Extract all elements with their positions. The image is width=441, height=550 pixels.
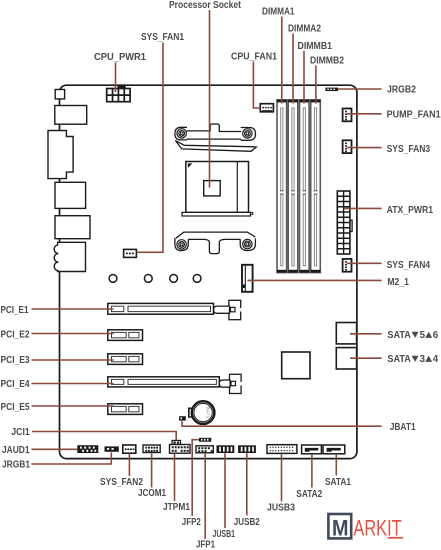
leader DIMMB1 bbox=[303, 51, 305, 104]
leader PCI_E5 bbox=[32, 405, 114, 407]
battery BAT1 bbox=[189, 401, 215, 424]
mounting hole 4 bbox=[193, 275, 201, 283]
svg-text:JBAT1: JBAT1 bbox=[390, 422, 416, 433]
svg-text:DIMMB2: DIMMB2 bbox=[310, 56, 344, 67]
svg-text:M2_1: M2_1 bbox=[387, 277, 409, 288]
svg-text:SATA2: SATA2 bbox=[296, 489, 322, 500]
svg-text:JUSB2: JUSB2 bbox=[234, 517, 260, 528]
svg-text:PUMP_FAN1: PUMP_FAN1 bbox=[387, 110, 441, 121]
MARKIT logo bbox=[328, 514, 403, 541]
SATA1 connector bbox=[323, 445, 345, 454]
leader JUSB1 bbox=[224, 453, 226, 528]
leader JUSB2 bbox=[246, 453, 248, 515]
leader SATA1 bbox=[335, 454, 337, 476]
leader JRGB1 bbox=[32, 453, 112, 465]
bottom bracket screw right bbox=[243, 239, 252, 248]
JFP2 connector bbox=[199, 438, 211, 442]
leader DIMMA1 bbox=[281, 17, 283, 104]
SATA 3/4 box bbox=[336, 348, 356, 369]
svg-text:JFP1: JFP1 bbox=[196, 540, 215, 550]
JTPM1 connector bbox=[170, 445, 191, 454]
top bracket screw left bbox=[177, 129, 186, 138]
leader M2_1 bbox=[248, 279, 382, 281]
leader DIMMA2 bbox=[292, 34, 294, 104]
svg-text:DIMMA1: DIMMA1 bbox=[262, 7, 295, 18]
JCI1 connector bbox=[172, 440, 181, 444]
svg-text:JCOM1: JCOM1 bbox=[138, 488, 166, 499]
svg-text:SATA1: SATA1 bbox=[325, 477, 351, 488]
JUSB2 connector bbox=[238, 445, 256, 453]
JBAT1 jumper bbox=[179, 416, 186, 420]
DIMM slot B1 bbox=[300, 100, 310, 273]
svg-text:JRGB1: JRGB1 bbox=[2, 460, 30, 471]
leader SATA2 bbox=[311, 454, 313, 488]
PCI_E5 slot bbox=[108, 404, 143, 415]
leader JTPM1 bbox=[174, 454, 176, 501]
PCI_E2 slot bbox=[108, 330, 143, 341]
JUSB1 connector bbox=[217, 445, 235, 453]
leader DIMMB2 bbox=[315, 66, 317, 104]
SYS_FAN1 connector bbox=[124, 249, 137, 257]
chipset bbox=[282, 352, 310, 379]
io audio jacks 6 bbox=[54, 242, 85, 271]
label SATA 3/4 bbox=[387, 354, 438, 365]
svg-text:SYS_FAN4: SYS_FAN4 bbox=[387, 260, 431, 271]
svg-text:5: 5 bbox=[420, 330, 426, 341]
svg-text:4: 4 bbox=[433, 354, 439, 365]
CPU socket top bracket bbox=[175, 124, 256, 151]
svg-text:ARKIT: ARKIT bbox=[353, 516, 401, 541]
socket bottom tray bbox=[182, 212, 253, 216]
svg-text:PCI_E5: PCI_E5 bbox=[1, 402, 30, 413]
leader ATX_PWR1 bbox=[344, 207, 382, 209]
leader PCI_E1 bbox=[32, 308, 114, 310]
svg-text:JRGB2: JRGB2 bbox=[387, 85, 416, 96]
svg-text:PCI_E1: PCI_E1 bbox=[1, 305, 29, 316]
svg-text:SYS_FAN1: SYS_FAN1 bbox=[141, 32, 184, 43]
svg-text:Processor Socket: Processor Socket bbox=[169, 0, 242, 11]
svg-text:JCI1: JCI1 bbox=[11, 427, 30, 438]
JAUD1 connector bbox=[77, 445, 98, 453]
leader JCOM1 bbox=[151, 454, 153, 488]
leader CPU_FAN1 bbox=[253, 62, 260, 109]
svg-text:PCI_E2: PCI_E2 bbox=[1, 330, 30, 341]
leader JFP1 bbox=[204, 453, 206, 539]
svg-text:PCI_E4: PCI_E4 bbox=[1, 379, 30, 390]
PCI_E4 latch bbox=[219, 374, 242, 393]
JFP1 connector bbox=[196, 446, 213, 453]
leader PCI_E4 bbox=[32, 383, 114, 385]
leader JRGB2 bbox=[338, 88, 382, 90]
mounting hole 1 bbox=[109, 275, 117, 283]
svg-text:DIMMB1: DIMMB1 bbox=[298, 41, 333, 52]
svg-text:ATX_PWR1: ATX_PWR1 bbox=[387, 205, 434, 216]
svg-text:SYS_FAN3: SYS_FAN3 bbox=[387, 144, 431, 155]
svg-text:3: 3 bbox=[420, 354, 426, 365]
leader SYS_FAN3 bbox=[347, 147, 382, 149]
top bracket screw right bbox=[243, 129, 252, 138]
leader SATA56 bbox=[350, 333, 382, 335]
bottom bracket screw left bbox=[177, 240, 186, 249]
leader SYS_FAN1 bbox=[137, 43, 164, 253]
SATA 5/6 box bbox=[336, 323, 356, 344]
PCI_E3 slot bbox=[108, 354, 143, 365]
leader SATA34 bbox=[350, 357, 382, 359]
leader JBAT1 bbox=[182, 421, 382, 426]
leader SYS_FAN4 bbox=[347, 262, 382, 264]
label SATA 5/6 bbox=[387, 330, 438, 341]
SYS_FAN2 connector bbox=[123, 445, 136, 453]
SYS_FAN4 connector bbox=[343, 259, 352, 272]
io port rect 2 bbox=[55, 106, 87, 125]
svg-text:PCI_E3: PCI_E3 bbox=[1, 355, 30, 366]
DIMM slot A1 bbox=[277, 100, 287, 273]
CPU_PWR1 connector grid bbox=[107, 86, 130, 102]
svg-text:DIMMA2: DIMMA2 bbox=[288, 24, 321, 35]
io port square 1 bbox=[55, 90, 64, 99]
JCOM1 connector bbox=[143, 445, 160, 453]
JRGB2 connector bbox=[326, 88, 338, 92]
PCI_E1 latch bbox=[214, 300, 242, 319]
CPU_FAN1 connector bbox=[260, 104, 273, 112]
PCI_E1 slot bbox=[108, 303, 214, 314]
M2_1 standoff bbox=[242, 265, 253, 292]
leader PCI_E2 bbox=[32, 333, 114, 335]
socket center square bbox=[204, 181, 221, 196]
svg-text:6: 6 bbox=[433, 330, 439, 341]
DIMM slot A2 bbox=[288, 100, 298, 273]
svg-text:CPU_FAN1: CPU_FAN1 bbox=[231, 52, 277, 63]
PUMP_FAN1 connector bbox=[343, 109, 352, 122]
leader JAUD1 bbox=[32, 448, 78, 450]
svg-text:SATA: SATA bbox=[387, 330, 411, 341]
leader SYS_FAN2 bbox=[128, 454, 130, 477]
JRGB1 connector bbox=[105, 446, 119, 451]
CPU socket square bbox=[186, 162, 249, 213]
leader CPU_PWR1 bbox=[115, 63, 117, 93]
io port rect 5 bbox=[55, 216, 90, 239]
leader Processor Socket bbox=[209, 10, 211, 188]
DIMM slot B2 bbox=[311, 100, 321, 273]
board outline bbox=[60, 85, 357, 458]
svg-text:JUSB3: JUSB3 bbox=[267, 503, 295, 514]
io port notched 3 bbox=[48, 131, 73, 179]
leader JFP2 bbox=[192, 440, 199, 516]
ATX_PWR1 connector bbox=[337, 191, 352, 254]
svg-text:JUSB1: JUSB1 bbox=[213, 529, 236, 540]
leader JCI1 bbox=[32, 432, 176, 441]
mounting hole 2 bbox=[144, 275, 152, 283]
PCI_E4 slot bbox=[108, 377, 220, 387]
svg-text:JAUD1: JAUD1 bbox=[2, 445, 30, 456]
leader PUMP_FAN1 bbox=[347, 113, 382, 115]
SATA2 connector bbox=[302, 445, 322, 454]
svg-text:BAT1: BAT1 bbox=[206, 407, 211, 419]
leader PCI_E3 bbox=[32, 359, 114, 361]
SYS_FAN3 connector bbox=[343, 140, 352, 153]
io port rect 4 bbox=[55, 182, 86, 208]
svg-text:JTPM1: JTPM1 bbox=[163, 502, 190, 513]
svg-text:SYS_FAN2: SYS_FAN2 bbox=[100, 477, 143, 488]
JUSB3 connector bbox=[267, 445, 297, 454]
svg-text:JFP2: JFP2 bbox=[182, 517, 201, 528]
CPU socket bottom bracket bbox=[175, 232, 256, 254]
svg-text:CPU_PWR1: CPU_PWR1 bbox=[94, 52, 146, 63]
svg-text:M: M bbox=[332, 515, 349, 540]
svg-text:SATA: SATA bbox=[387, 354, 411, 365]
mounting hole 3 bbox=[170, 275, 178, 283]
leader JUSB3 bbox=[281, 454, 283, 502]
